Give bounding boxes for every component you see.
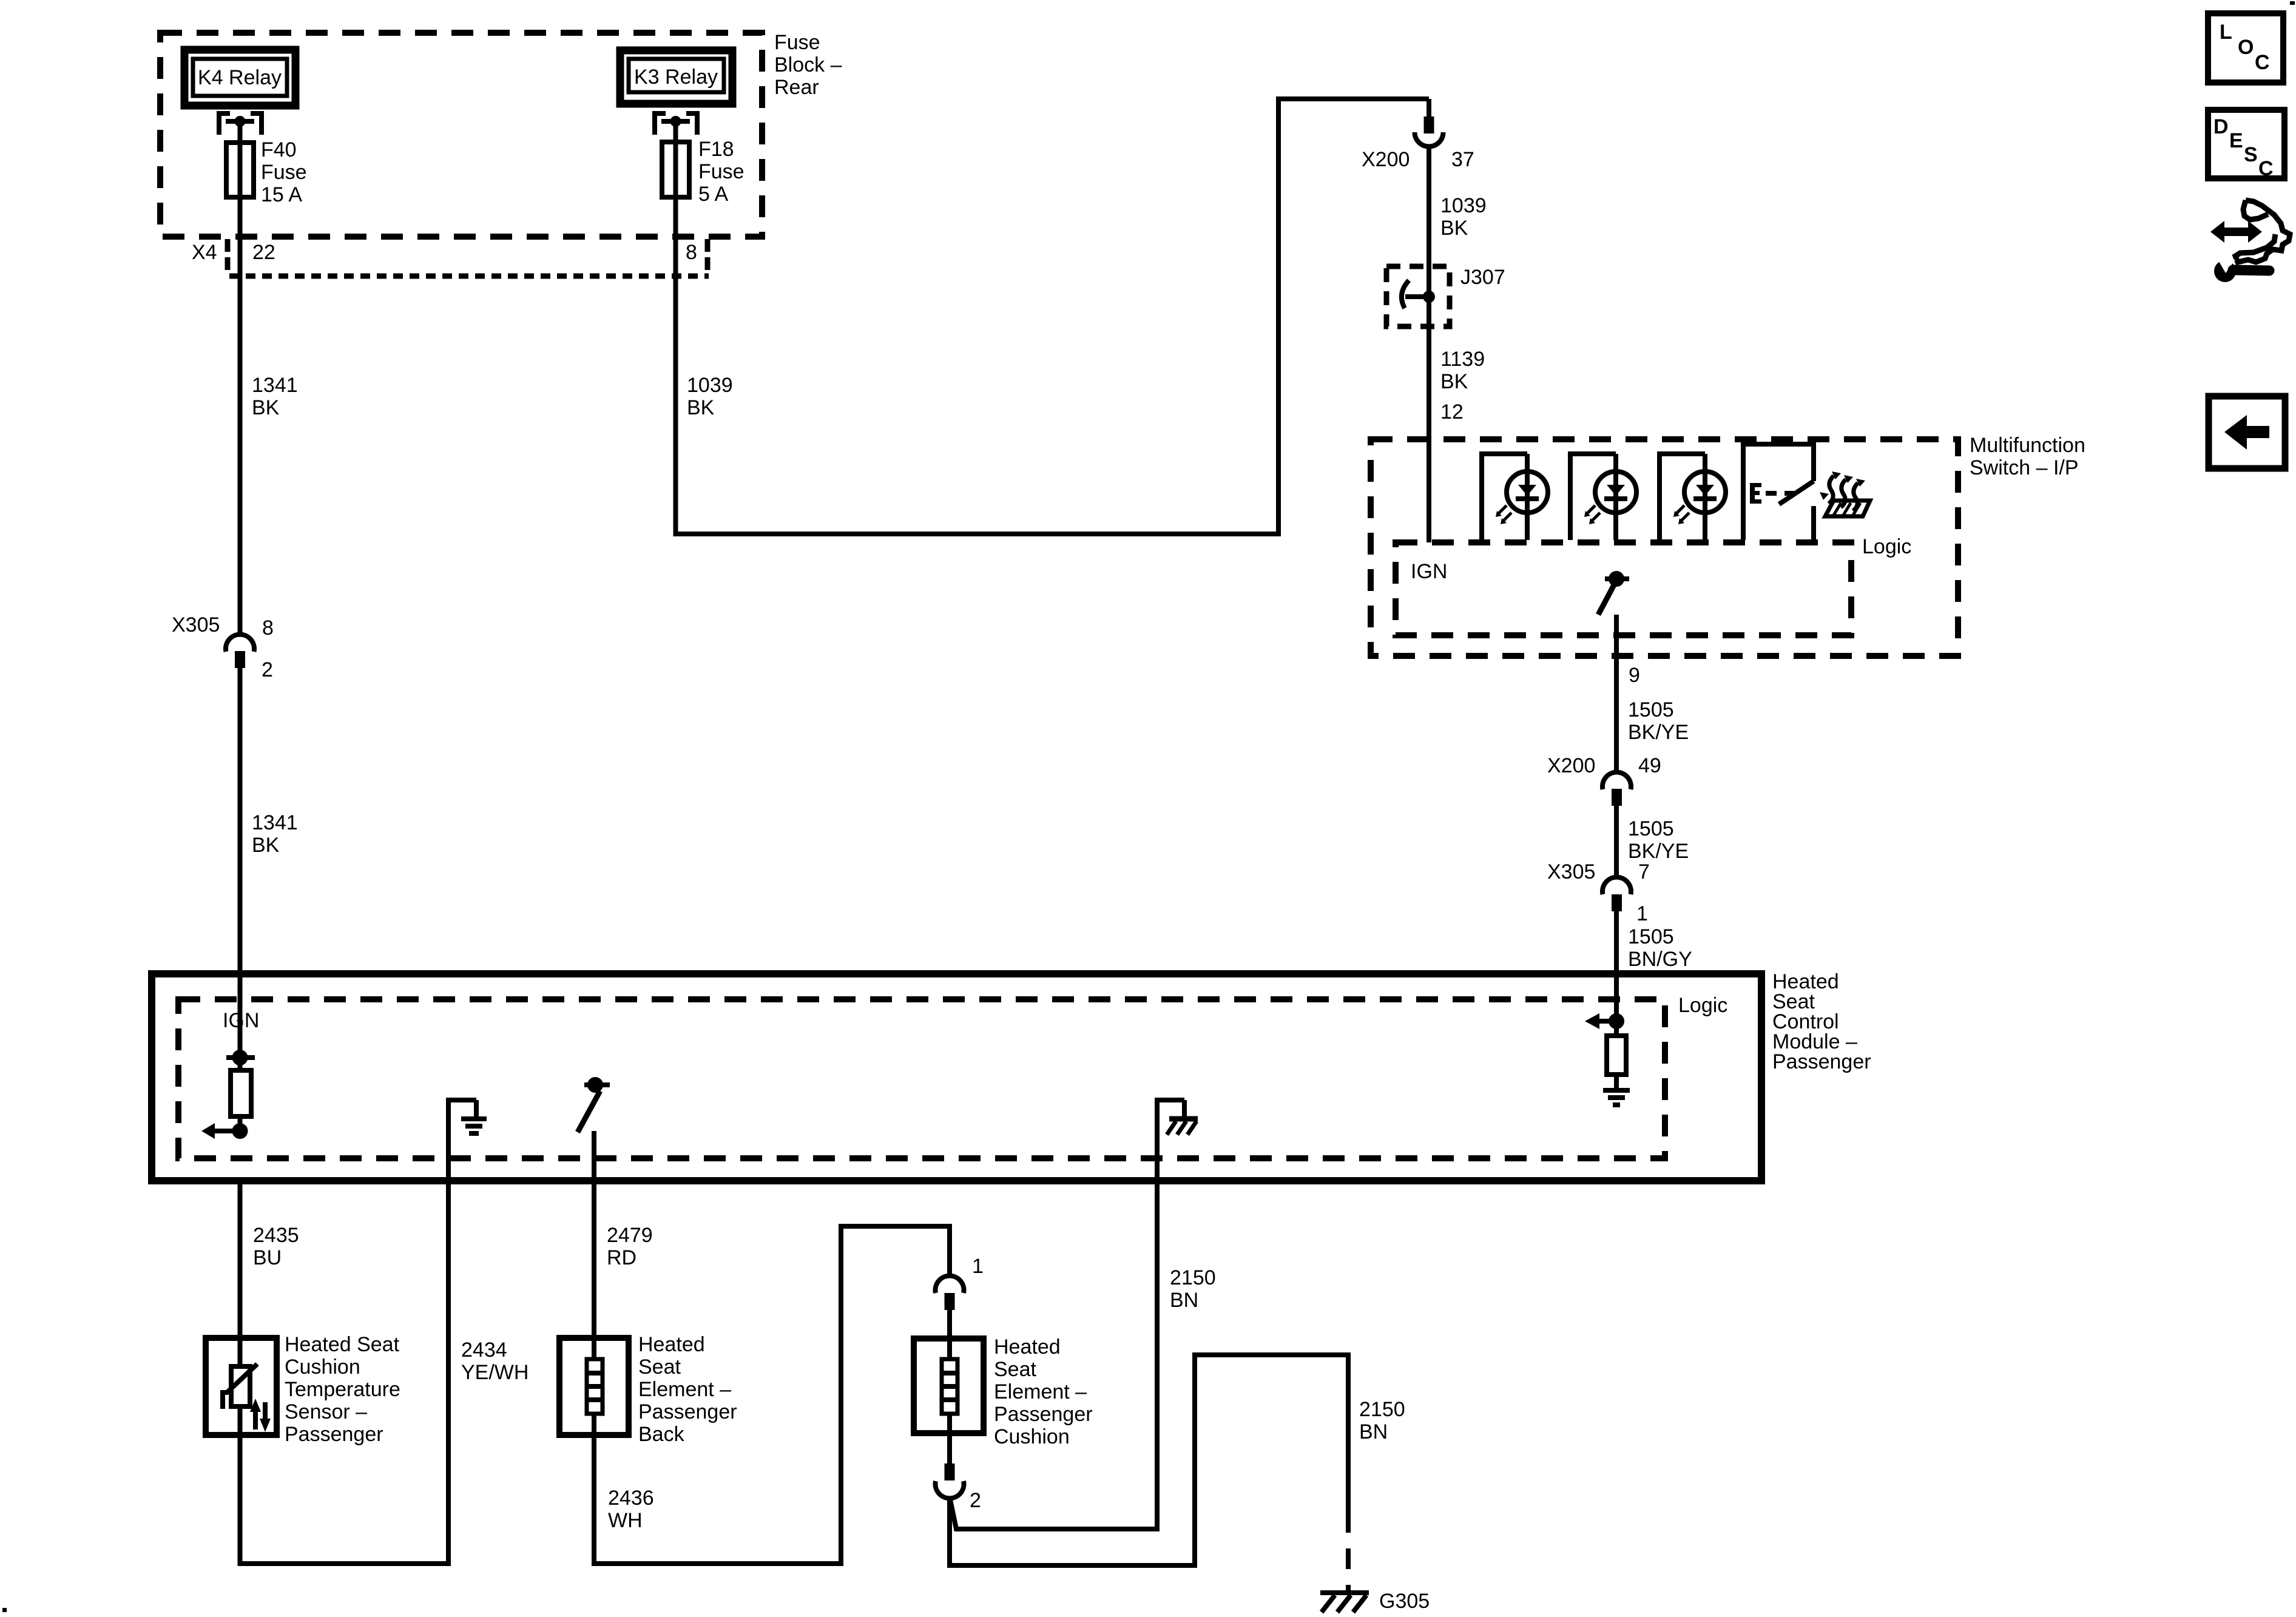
svg-text:C: C xyxy=(2258,157,2274,180)
corner dot bottom-left xyxy=(2,1608,7,1612)
connector X200 pin 37 xyxy=(1415,116,1443,146)
svg-text:2434: 2434 xyxy=(461,1338,507,1362)
svg-text:BU: BU xyxy=(253,1246,282,1269)
svg-text:RD: RD xyxy=(607,1246,636,1269)
wire 2436 WH element back to cushion loop xyxy=(594,1226,950,1564)
relay K3 box xyxy=(620,50,732,104)
connector X200 pin 49 xyxy=(1602,772,1631,806)
connector X305 pin 8/2 xyxy=(226,635,254,668)
back arrow icon box xyxy=(2209,396,2285,468)
svg-text:Heated: Heated xyxy=(994,1335,1061,1359)
wire 1341 BK X305 to module xyxy=(238,668,243,977)
svg-text:22: 22 xyxy=(252,241,275,264)
svg-text:K4 Relay: K4 Relay xyxy=(198,66,282,89)
wire 2150 BN module to pin 2 xyxy=(950,1181,1157,1529)
svg-text:1039: 1039 xyxy=(1440,194,1487,217)
svg-text:Multifunction: Multifunction xyxy=(1970,434,2085,457)
svg-text:1: 1 xyxy=(1636,902,1648,925)
label 1139 BK xyxy=(1440,348,1485,393)
svg-text:49: 49 xyxy=(1638,754,1661,777)
svg-text:2479: 2479 xyxy=(607,1224,653,1247)
ground G305 xyxy=(1320,1593,1369,1612)
wire horizontal run to riser xyxy=(676,532,1279,536)
label Heated Seat Control Module - Passenger xyxy=(1772,970,1871,1073)
svg-text:1505: 1505 xyxy=(1628,817,1674,840)
corner dot top-right xyxy=(2290,1,2295,5)
svg-text:L: L xyxy=(2220,21,2232,44)
label 2150 BN (ground side) xyxy=(1359,1398,1405,1443)
relay K4 pin bracket xyxy=(219,113,262,135)
heated seat switch contact xyxy=(1743,444,1814,542)
wire relay K4 to fuse F40 xyxy=(238,121,243,143)
svg-text:X305: X305 xyxy=(1547,860,1595,883)
connector repair icon xyxy=(2210,200,2290,282)
connector pin 1 (cushion element) xyxy=(936,1276,964,1310)
svg-text:Passenger: Passenger xyxy=(638,1400,737,1423)
label 1039 BK (left) xyxy=(687,374,733,419)
heated seat cushion temperature sensor box xyxy=(206,1338,277,1435)
svg-text:Seat: Seat xyxy=(638,1355,681,1379)
svg-text:BK: BK xyxy=(1440,217,1468,240)
svg-text:X200: X200 xyxy=(1362,148,1410,171)
svg-text:YE/WH: YE/WH xyxy=(461,1361,528,1384)
svg-text:Cushion: Cushion xyxy=(285,1355,360,1379)
svg-text:Logic: Logic xyxy=(1862,535,1911,558)
svg-text:Rear: Rear xyxy=(774,76,819,99)
label 2435 BU xyxy=(253,1224,299,1269)
wire 2435 BU module to sensor xyxy=(238,1181,243,1338)
svg-text:Element –: Element – xyxy=(994,1380,1087,1403)
svg-text:2435: 2435 xyxy=(253,1224,299,1247)
svg-text:F40: F40 xyxy=(261,138,297,161)
svg-text:2: 2 xyxy=(970,1489,981,1512)
svg-text:1039: 1039 xyxy=(687,374,733,397)
svg-text:Block –: Block – xyxy=(774,53,842,76)
svg-text:Fuse: Fuse xyxy=(774,31,820,54)
connector pin 2 (cushion element) xyxy=(936,1463,964,1498)
label 1505 BK/YE (upper) xyxy=(1628,698,1689,744)
label Multifunction Switch - I/P xyxy=(1970,434,2085,479)
svg-text:2436: 2436 xyxy=(608,1487,654,1510)
svg-text:BN: BN xyxy=(1170,1289,1198,1312)
dashed wire to G305 xyxy=(1346,1512,1351,1591)
svg-text:1505: 1505 xyxy=(1628,698,1674,721)
module solid box xyxy=(152,974,1761,1181)
svg-text:S: S xyxy=(2244,143,2258,166)
splice J307 xyxy=(1386,266,1450,326)
svg-text:Passenger: Passenger xyxy=(994,1403,1093,1426)
svg-text:K3 Relay: K3 Relay xyxy=(634,66,718,89)
svg-text:1139: 1139 xyxy=(1440,348,1485,371)
svg-text:BK: BK xyxy=(687,396,715,419)
wire 1505 BK/YE xyxy=(1614,806,1619,877)
svg-text:8: 8 xyxy=(686,241,697,264)
fuse F40 15A xyxy=(226,143,254,197)
svg-text:Passenger: Passenger xyxy=(285,1423,383,1446)
label F40 Fuse 15 A xyxy=(261,138,307,206)
connector X305 pin 7/1 xyxy=(1602,877,1631,911)
svg-text:2150: 2150 xyxy=(1170,1266,1216,1289)
LED indicator 1 xyxy=(1482,454,1548,540)
DESC icon box xyxy=(2208,110,2284,180)
svg-text:BK/YE: BK/YE xyxy=(1628,840,1689,863)
svg-text:Fuse: Fuse xyxy=(698,160,745,183)
svg-text:9: 9 xyxy=(1629,664,1640,687)
svg-text:5 A: 5 A xyxy=(698,183,728,206)
wire 1139 BK J307 to multifunction switch xyxy=(1427,297,1431,542)
svg-text:WH: WH xyxy=(608,1509,643,1532)
heated seat element passenger back box xyxy=(559,1338,629,1435)
label 2150 BN (module side) xyxy=(1170,1266,1216,1312)
module output switch xyxy=(578,1079,610,1183)
wire 2479 RD module to element back xyxy=(592,1181,596,1338)
svg-text:D: D xyxy=(2213,115,2229,138)
svg-text:2150: 2150 xyxy=(1359,1398,1405,1421)
relay K3 pin bracket xyxy=(655,113,697,135)
label F18 Fuse 5 A xyxy=(698,138,745,206)
svg-text:1: 1 xyxy=(972,1255,984,1278)
svg-text:Element –: Element – xyxy=(638,1378,731,1401)
module chassis ground (element return) xyxy=(1155,1100,1198,1183)
label 1505 BN/GY xyxy=(1628,925,1692,971)
svg-text:37: 37 xyxy=(1451,148,1474,171)
label 1341 BK (upper) xyxy=(252,374,298,419)
svg-text:Passenger: Passenger xyxy=(1772,1050,1871,1073)
svg-text:Seat: Seat xyxy=(994,1358,1036,1381)
svg-text:E: E xyxy=(2229,129,2243,152)
svg-text:O: O xyxy=(2238,36,2254,59)
wire 1341 BK fuse F40 to X305 xyxy=(238,197,243,636)
svg-text:2: 2 xyxy=(262,658,273,681)
svg-text:Sensor –: Sensor – xyxy=(285,1400,367,1423)
svg-text:Cushion: Cushion xyxy=(994,1425,1070,1448)
label Heated Seat Element - Passenger Back xyxy=(638,1333,737,1446)
svg-text:Temperature: Temperature xyxy=(285,1378,400,1401)
wire pin 9 output xyxy=(1614,615,1619,772)
svg-text:X305: X305 xyxy=(172,613,220,636)
label 2436 WH xyxy=(608,1487,654,1532)
module logic dashed box xyxy=(178,999,1665,1158)
svg-text:BK: BK xyxy=(1440,370,1468,393)
svg-text:15 A: 15 A xyxy=(261,183,302,206)
wire 2434 YE/WH module ground to junction xyxy=(446,1181,451,1566)
svg-text:Logic: Logic xyxy=(1678,994,1727,1017)
multifunction switch dashed box xyxy=(1371,439,1958,656)
fuse block rear dashed box xyxy=(160,33,762,237)
wire riser up xyxy=(1276,96,1281,536)
heated seat icon xyxy=(1820,471,1870,516)
label 1505 BK/YE (lower) xyxy=(1628,817,1689,863)
module sensor pull-up resistor xyxy=(201,977,255,1139)
LED indicator 3 xyxy=(1660,454,1726,540)
logic dashed box (switch) xyxy=(1396,542,1851,635)
label 2434 YE/WH xyxy=(461,1338,528,1384)
module logic input resistor to ground xyxy=(1585,977,1630,1105)
svg-text:1341: 1341 xyxy=(252,374,298,397)
svg-text:1505: 1505 xyxy=(1628,925,1674,948)
switch wiper (logic) xyxy=(1598,573,1629,615)
relay K4 box xyxy=(184,50,295,106)
svg-text:Fuse: Fuse xyxy=(261,161,307,184)
module earth ground (sensor return) xyxy=(446,1100,487,1183)
svg-text:BK: BK xyxy=(252,396,280,419)
wire 1039 BK to J307 xyxy=(1427,149,1431,297)
label 2479 RD xyxy=(607,1224,653,1269)
wire 1039 BK fuse F18 down xyxy=(674,197,678,536)
heated seat element passenger cushion box xyxy=(914,1310,984,1463)
svg-text:BK/YE: BK/YE xyxy=(1628,721,1689,744)
label Heated Seat Cushion Temperature Sensor - Passenger xyxy=(285,1333,400,1446)
wire sensor to 2434 junction xyxy=(240,1435,449,1564)
svg-text:Heated Seat: Heated Seat xyxy=(285,1333,400,1356)
svg-text:8: 8 xyxy=(262,616,274,640)
svg-text:1341: 1341 xyxy=(252,811,298,834)
fuse F18 5A xyxy=(662,142,689,197)
svg-text:IGN: IGN xyxy=(1411,560,1447,583)
svg-text:C: C xyxy=(2255,51,2270,74)
svg-text:BN/GY: BN/GY xyxy=(1628,948,1692,971)
wire top horizontal to X200 xyxy=(1276,99,1429,116)
svg-text:Switch – I/P: Switch – I/P xyxy=(1970,456,2079,479)
svg-text:X4: X4 xyxy=(192,241,217,264)
svg-text:J307: J307 xyxy=(1460,266,1505,289)
svg-text:BK: BK xyxy=(252,834,280,857)
svg-text:X200: X200 xyxy=(1547,754,1595,777)
svg-text:F18: F18 xyxy=(698,138,734,161)
svg-text:12: 12 xyxy=(1440,400,1464,424)
svg-text:G305: G305 xyxy=(1379,1590,1430,1613)
svg-text:7: 7 xyxy=(1638,860,1650,883)
svg-text:Back: Back xyxy=(638,1423,685,1446)
connector X4 dotted boundary xyxy=(228,239,709,276)
wire 1505 BN/GY to module xyxy=(1614,911,1619,977)
label Heated Seat Element - Passenger Cushion xyxy=(994,1335,1093,1448)
label Fuse Block - Rear xyxy=(774,31,842,99)
svg-text:Heated: Heated xyxy=(638,1333,705,1356)
wire pin 2 to G305 riser xyxy=(950,1355,1348,1565)
label 1039 BK (right) xyxy=(1440,194,1487,240)
svg-text:BN: BN xyxy=(1359,1420,1388,1443)
wire relay K3 to fuse F18 xyxy=(674,121,678,142)
label 1341 BK (lower) xyxy=(252,811,298,857)
LED indicator 2 xyxy=(1570,454,1636,540)
LOC icon box xyxy=(2208,13,2283,83)
